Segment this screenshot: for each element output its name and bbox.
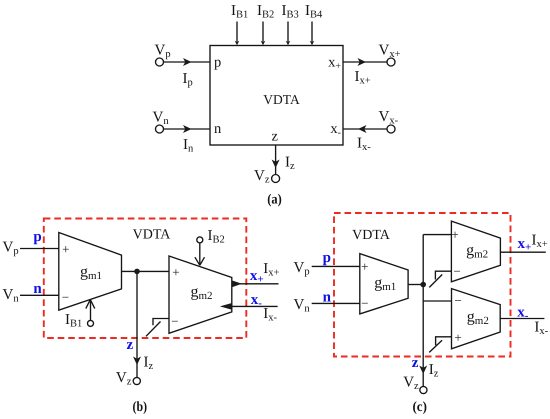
svg-text:+: + (361, 259, 368, 274)
svg-text:n: n (323, 290, 332, 306)
svg-text:+: + (172, 264, 179, 279)
svg-text:+: + (454, 330, 461, 345)
svg-text:VDTA: VDTA (352, 228, 391, 243)
svg-text:z: z (127, 337, 134, 353)
svg-text:n: n (214, 121, 222, 137)
svg-text:p: p (214, 55, 221, 71)
svg-text:(c): (c) (412, 400, 427, 415)
svg-text:z: z (412, 355, 419, 371)
svg-text:VDTA: VDTA (133, 228, 172, 243)
svg-text:p: p (323, 250, 331, 266)
svg-text:−: − (171, 314, 178, 329)
svg-text:(a): (a) (267, 193, 282, 208)
svg-text:−: − (361, 296, 368, 311)
svg-text:(b): (b) (133, 400, 148, 415)
svg-text:z: z (272, 129, 279, 145)
svg-text:−: − (62, 290, 69, 305)
svg-text:n: n (33, 281, 42, 297)
svg-text:VDTA: VDTA (263, 92, 300, 107)
svg-text:−: − (454, 293, 461, 308)
svg-text:+: + (451, 227, 458, 242)
svg-text:p: p (33, 229, 41, 245)
svg-text:+: + (62, 242, 69, 257)
svg-text:−: − (453, 263, 460, 278)
